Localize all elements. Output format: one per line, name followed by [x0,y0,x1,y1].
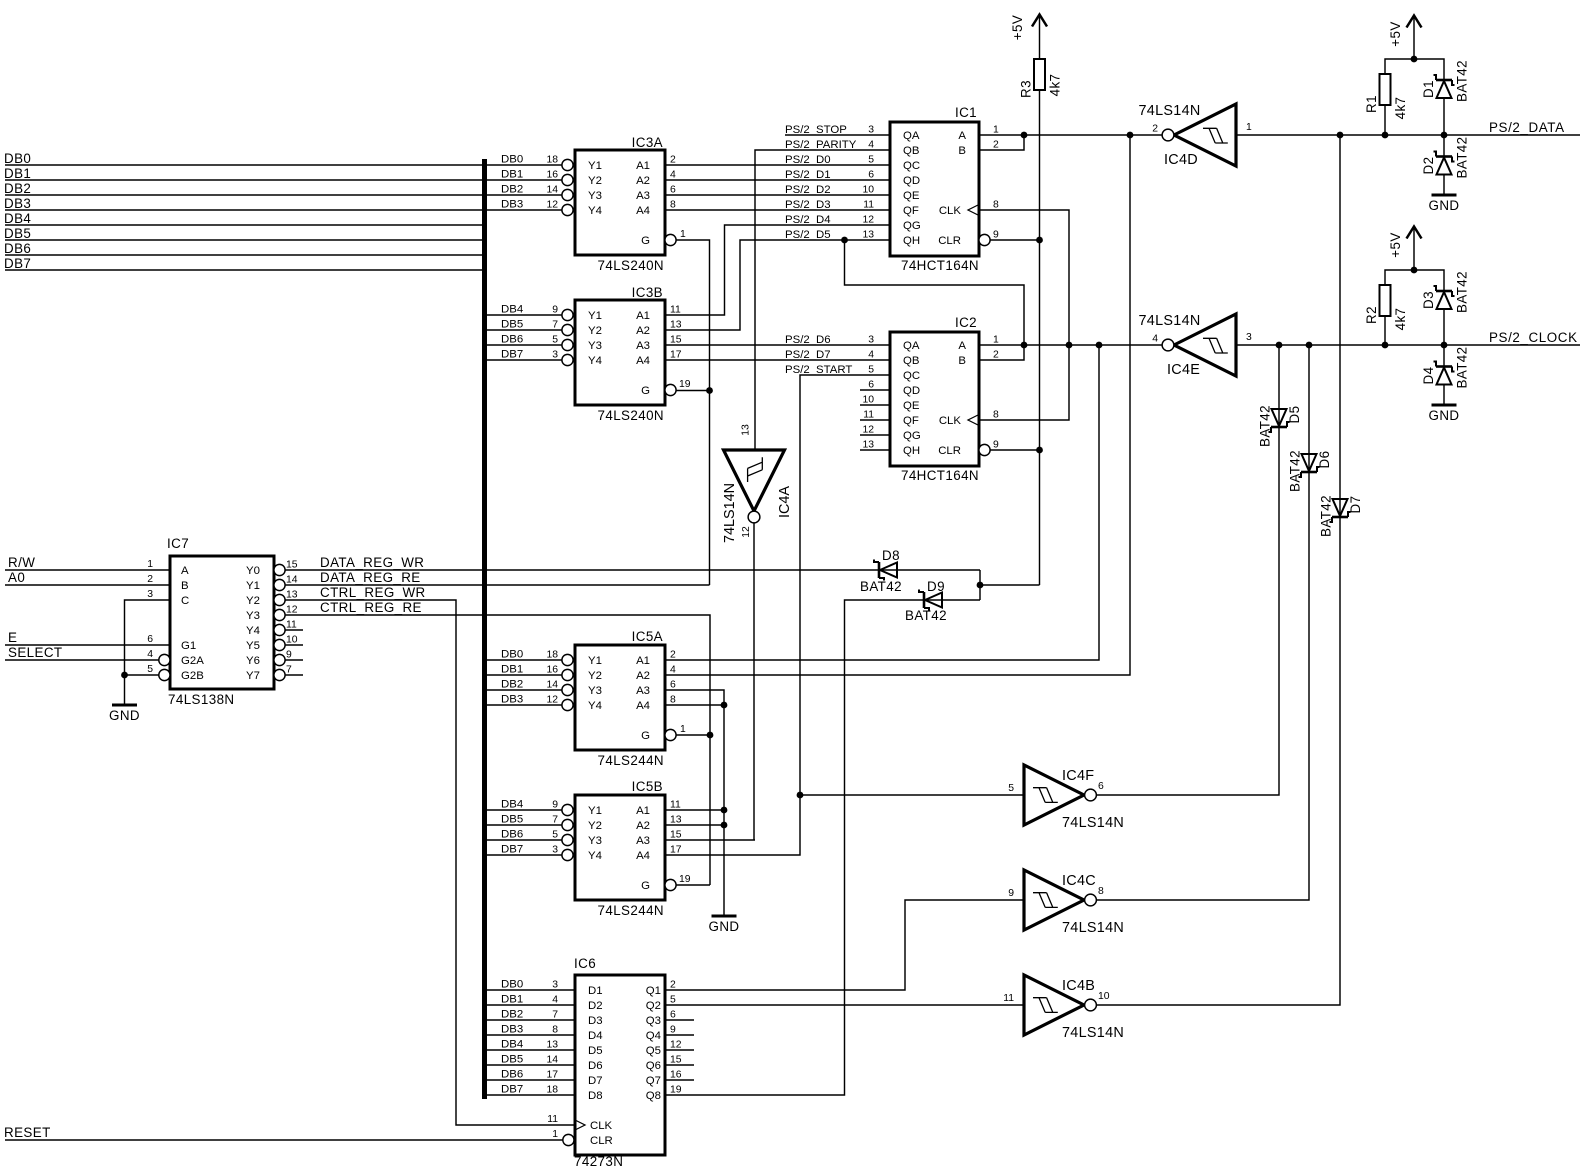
svg-text:Y2: Y2 [588,175,602,187]
junction C / G2B / GND [121,672,128,679]
svg-text:PS/2_D2: PS/2_D2 [785,184,831,196]
diode D5 BAT42 [1271,426,1287,429]
pin stub IC6 Q3 [665,1019,694,1021]
svg-text:A2: A2 [636,325,650,337]
svg-text:A2: A2 [636,670,650,682]
svg-text:15: 15 [670,830,682,841]
IC IC3B 74LS240N buffer [575,300,665,405]
svg-text:Y1: Y1 [588,655,602,667]
svg-text:2: 2 [670,155,676,166]
svg-text:Y1: Y1 [588,310,602,322]
pin stub IC6 Q7 [665,1079,694,1081]
svg-text:D7: D7 [1348,496,1363,514]
svg-text:12: 12 [286,605,298,616]
svg-text:D5: D5 [588,1045,603,1057]
svg-text:9: 9 [993,230,999,241]
wire R2 top to +5V rail and D3 [1385,270,1444,291]
svg-text:BAT42: BAT42 [1455,137,1470,179]
svg-text:DB4: DB4 [501,1039,523,1051]
pin bubble IC5B G pin 19 [665,879,676,890]
svg-text:DB3: DB3 [501,199,523,211]
pin bubble IC7 G2A [159,654,170,665]
svg-text:A4: A4 [636,700,650,712]
svg-text:Y1: Y1 [588,160,602,172]
pin stub IC2 QD pin 6 [860,389,890,391]
pin bubble IC2 CLR pin 9 [979,444,990,455]
svg-text:5: 5 [147,664,153,675]
wire DB5 branch to IC6 pin 14 [487,1064,574,1066]
wire IC3A G to DATA_REG_RE vertical [676,240,710,391]
svg-text:8: 8 [552,1025,558,1036]
svg-text:PS/2_STOP: PS/2_STOP [785,124,847,136]
svg-text:DB2: DB2 [501,184,523,196]
wire DB3 branch to IC5A pin 12 [487,704,562,706]
svg-text:DB5: DB5 [501,814,523,826]
pin stub IC2 QE pin 10 [860,404,890,406]
inverter IC4F 74LS14N [1024,765,1084,825]
svg-text:5: 5 [670,995,676,1006]
svg-text:18: 18 [546,155,558,166]
svg-text:QF: QF [903,205,919,217]
svg-text:D6: D6 [588,1060,603,1072]
svg-text:Y4: Y4 [588,205,602,217]
svg-text:D8: D8 [588,1090,603,1102]
junction D3 D4 / PS/2_CLOCK [1441,342,1448,349]
pin stub IC6 Q6 [665,1064,694,1066]
svg-text:BAT42: BAT42 [1319,495,1334,537]
svg-text:Y3: Y3 [588,340,602,352]
svg-text:PS/2_D3: PS/2_D3 [785,199,831,211]
svg-text:DB4: DB4 [4,211,31,226]
svg-text:9: 9 [552,305,558,316]
wire DB1 branch to IC5A pin 16 [487,674,562,676]
pin bubble IC3A Y2 [562,174,573,185]
wire to ground symbol [124,675,126,705]
svg-text:A: A [181,565,189,577]
pin stub IC6 Q4 [665,1034,694,1036]
svg-text:Y2: Y2 [588,670,602,682]
svg-text:Y1: Y1 [588,805,602,817]
wire clock line to D4 [1443,345,1445,367]
junction clock net / CLK pins [1066,342,1073,349]
svg-text:PS/2_D0: PS/2_D0 [785,154,831,166]
wire DB7 branch to IC6 pin 18 [487,1094,574,1096]
svg-text:R2: R2 [1364,306,1379,324]
svg-text:13: 13 [741,424,752,436]
svg-text:IC2: IC2 [955,315,977,330]
svg-text:74273N: 74273N [574,1154,623,1169]
svg-text:DB7: DB7 [501,844,523,856]
svg-text:DB2: DB2 [501,679,523,691]
wire IC2 A/B to IC4E output [979,344,1162,346]
wire PS/2_START from IC2 pin 5 down to IC4F input and IC5B A4 [665,375,890,855]
svg-text:DB5: DB5 [501,319,523,331]
svg-text:IC4A: IC4A [777,486,793,518]
svg-text:10: 10 [286,635,298,646]
svg-text:CLR: CLR [938,235,961,247]
svg-text:14: 14 [546,680,558,691]
svg-text:74LS240N: 74LS240N [598,258,665,273]
pin stub IC2 QF pin 11 [860,419,890,421]
svg-text:A3: A3 [636,835,650,847]
pin bubble IC7 Y6 [274,654,285,665]
power symbol +5V (R3) [1032,15,1047,27]
svg-text:13: 13 [546,1040,558,1051]
svg-text:10: 10 [1098,991,1110,1002]
svg-text:Y5: Y5 [246,640,260,652]
wire CTRL_REG_RE from IC7 Y3 to IC5 G pins [285,615,710,885]
wire R1/D1 top rail [1384,105,1386,135]
svg-text:BAT42: BAT42 [1455,60,1470,102]
pin bubble IC5B Y3 [562,834,573,845]
junction CTRL_REG_RE / IC5A G [707,732,714,739]
svg-text:Y2: Y2 [588,325,602,337]
svg-text:Y4: Y4 [246,625,260,637]
svg-text:DB0: DB0 [501,979,523,991]
svg-text:A: A [958,130,966,142]
svg-text:CTRL_REG_RE: CTRL_REG_RE [320,600,422,615]
svg-text:QA: QA [903,130,920,142]
svg-text:13: 13 [862,230,874,241]
svg-text:12: 12 [741,526,752,538]
svg-text:BAT42: BAT42 [1258,405,1273,447]
svg-text:4: 4 [552,995,558,1006]
svg-text:PS/2_PARITY: PS/2_PARITY [785,139,857,151]
svg-text:G: G [641,385,650,397]
svg-text:7: 7 [552,320,558,331]
svg-text:DB2: DB2 [4,181,31,196]
pin bubble IC5A Y2 [562,669,573,680]
svg-text:8: 8 [993,200,999,211]
svg-text:11: 11 [1003,993,1014,1004]
svg-text:3: 3 [1246,332,1252,343]
svg-text:+5V: +5V [1388,21,1403,46]
svg-text:IC1: IC1 [955,105,977,120]
svg-text:14: 14 [546,185,558,196]
svg-text:1: 1 [993,125,999,136]
svg-text:DB7: DB7 [4,256,31,271]
wire IC5B G to CTRL_REG_RE vertical [676,884,710,886]
wire D2 to ground [1443,175,1445,196]
svg-text:11: 11 [670,800,681,811]
svg-text:4k7: 4k7 [1393,97,1408,120]
svg-text:74LS14N: 74LS14N [1139,103,1201,119]
bus DB[0..7] [482,159,487,1099]
svg-text:1: 1 [1246,122,1252,133]
svg-text:G2A: G2A [181,655,204,667]
svg-text:3: 3 [147,589,153,600]
wire IC1 A/B to IC4D output [979,134,1162,136]
svg-text:CLR: CLR [590,1135,613,1147]
wire SELECT to IC7 G2A [5,659,159,661]
svg-text:CTRL_REG_WR: CTRL_REG_WR [320,585,426,600]
svg-text:Q4: Q4 [646,1030,661,1042]
wire R2 bottom [1384,316,1386,345]
wire DB7 branch to IC3B pin 3 [487,359,562,361]
svg-text:R3: R3 [1019,80,1034,98]
svg-text:11: 11 [863,410,874,421]
svg-text:1: 1 [147,559,153,570]
svg-text:Y2: Y2 [588,820,602,832]
svg-text:3: 3 [868,335,874,346]
svg-text:DB1: DB1 [501,664,523,676]
wire PS/2_DATA line [1236,134,1580,136]
inverter IC4B 74LS14N [1024,975,1084,1035]
svg-text:R/W: R/W [8,555,35,570]
svg-text:PS/2_CLOCK: PS/2_CLOCK [1489,330,1578,345]
svg-text:C: C [181,595,189,607]
svg-text:4: 4 [868,140,874,151]
svg-text:19: 19 [670,1085,682,1096]
svg-text:G1: G1 [181,640,196,652]
svg-text:IC3A: IC3A [632,135,663,150]
junction IC5A A4 / GND net [721,702,728,709]
svg-text:IC4D: IC4D [1164,152,1198,168]
svg-text:Q7: Q7 [646,1075,661,1087]
svg-text:Y3: Y3 [588,190,602,202]
svg-text:D7: D7 [588,1075,603,1087]
svg-text:5: 5 [552,335,558,346]
pin bubble IC7 G2B [159,669,170,680]
pin bubble IC3B G pin 19 [665,384,676,395]
svg-text:4: 4 [147,649,153,660]
wire DB7 feeder [5,269,482,271]
wire IC6 Q8 to diode D9 [665,600,980,1095]
junction +5V arrow (R2/D3) [1411,267,1418,274]
svg-text:A1: A1 [636,160,650,172]
svg-text:B: B [958,145,966,157]
svg-text:QH: QH [903,445,920,457]
svg-text:4: 4 [868,350,874,361]
svg-text:74LS240N: 74LS240N [598,408,665,423]
svg-text:DB3: DB3 [501,694,523,706]
diode D8 BAT42 [878,562,881,578]
svg-text:13: 13 [862,440,874,451]
svg-text:A4: A4 [636,355,650,367]
junction D1 D2 / PS/2_DATA [1441,132,1448,139]
svg-text:Y0: Y0 [246,565,260,577]
svg-text:13: 13 [670,320,682,331]
wire PS/2_START to IC4F input pin 5 [800,794,1024,796]
svg-text:Y3: Y3 [246,610,260,622]
svg-text:GND: GND [709,919,740,934]
svg-text:1: 1 [552,1129,558,1140]
pin bubble IC3A Y3 [562,189,573,200]
svg-text:74LS14N: 74LS14N [722,483,738,543]
svg-text:Q6: Q6 [646,1060,661,1072]
svg-text:DB2: DB2 [501,1009,523,1021]
svg-text:8: 8 [1098,886,1104,897]
svg-text:D3: D3 [588,1015,603,1027]
svg-text:74LS244N: 74LS244N [598,903,665,918]
svg-text:1: 1 [680,229,686,240]
svg-text:A4: A4 [636,850,650,862]
svg-text:3: 3 [552,350,558,361]
pin bubble IC3A G pin 1 [665,234,676,245]
wire DB4 branch to IC6 pin 13 [487,1049,574,1051]
wire PS/2_D2 from IC3A A3 to IC1 [665,194,890,196]
svg-text:CLK: CLK [939,205,962,217]
svg-text:6: 6 [670,1010,676,1021]
svg-text:IC7: IC7 [167,536,189,551]
svg-text:DB5: DB5 [501,1054,523,1066]
pin bubble IC5A Y3 [562,684,573,695]
svg-text:DB0: DB0 [4,151,31,166]
svg-text:12: 12 [546,695,558,706]
svg-text:8: 8 [993,410,999,421]
junction +5V arrow (R1/D1) [1411,56,1418,63]
wire DB1 branch to IC3A pin 16 [487,179,562,181]
pin bubble IC5A G pin 1 [665,729,676,740]
svg-text:6: 6 [670,185,676,196]
svg-text:IC5B: IC5B [632,779,663,794]
svg-text:74HCT164N: 74HCT164N [901,468,979,483]
svg-text:QD: QD [903,175,920,187]
svg-text:74LS14N: 74LS14N [1062,920,1124,936]
wire DB5 feeder [5,239,482,241]
svg-text:A: A [958,340,966,352]
pin bubble IC5B Y4 [562,849,573,860]
pin bubble IC1 CLR pin 9 [979,234,990,245]
svg-text:11: 11 [670,305,681,316]
IC IC2 74HCT164N shift register [890,332,979,466]
wire IC5A A4 to GND vertical [665,704,724,706]
svg-text:Q2: Q2 [646,1000,661,1012]
IC IC5A 74LS244N buffer [575,645,665,750]
svg-text:17: 17 [670,350,682,361]
wire IC5B A1 to GND vertical [665,809,724,811]
svg-text:DB6: DB6 [501,1069,523,1081]
pin bubble IC5B Y2 [562,819,573,830]
IC IC1 74HCT164N shift register [890,122,979,256]
svg-text:Y3: Y3 [588,835,602,847]
wire PS/2_D1 from IC3A A2 to IC1 [665,179,890,181]
svg-text:12: 12 [862,425,874,436]
wire IC6 Q1 to IC4C input [665,900,1024,990]
wire DB5 branch to IC3B pin 7 [487,329,562,331]
pin bubble IC3A Y1 [562,159,573,170]
svg-text:DB7: DB7 [501,1084,523,1096]
pin bubble IC3B Y4 [562,354,573,365]
svg-text:A3: A3 [636,190,650,202]
diode D2 BAT42 [1436,155,1452,158]
junction IC3B G / DATA_REG_RE [706,387,713,394]
svg-text:D5: D5 [1287,406,1302,424]
wire DB2 branch to IC6 pin 7 [487,1019,574,1021]
svg-text:DB3: DB3 [501,1024,523,1036]
power symbol +5V (R2/D3) [1407,227,1422,239]
svg-text:2: 2 [993,350,999,361]
svg-text:Y2: Y2 [246,595,260,607]
junction R2 / PS/2_CLOCK [1382,342,1389,349]
wire IC4C output to diode D6 [1097,345,1310,900]
svg-text:2: 2 [993,140,999,151]
wire IC5B A3 from IC4A output [665,839,755,841]
svg-text:DB1: DB1 [501,169,523,181]
wire IC1 CLR pin 9 [990,239,1040,241]
wire IC2 B jog [979,345,1024,360]
svg-text:BAT42: BAT42 [1288,450,1303,492]
svg-text:74LS138N: 74LS138N [168,692,235,707]
wire IC7 C to GND jog [125,600,171,675]
svg-text:Y6: Y6 [246,655,260,667]
svg-text:8: 8 [670,695,676,706]
svg-text:RESET: RESET [4,1125,51,1140]
wire DB4 feeder [5,224,482,226]
diode D1 BAT42 [1436,79,1452,82]
clock edge marker IC1 CLK [968,205,979,216]
svg-text:PS/2_D4: PS/2_D4 [785,214,831,226]
svg-text:Y7: Y7 [246,670,260,682]
svg-text:D3: D3 [1421,291,1436,309]
svg-text:Y3: Y3 [588,685,602,697]
svg-text:G: G [641,880,650,892]
svg-text:GND: GND [1429,198,1460,213]
svg-text:74LS14N: 74LS14N [1139,313,1201,329]
clock edge marker IC2 CLK [968,415,979,426]
svg-text:2: 2 [670,650,676,661]
svg-text:17: 17 [546,1070,558,1081]
svg-text:74LS14N: 74LS14N [1062,815,1124,831]
junction PS/2_START / IC4F input [797,792,804,799]
svg-text:17: 17 [670,845,682,856]
svg-text:16: 16 [546,170,558,181]
pin stub IC7 Y5 [285,644,303,646]
svg-text:2: 2 [670,980,676,991]
svg-text:A2: A2 [636,175,650,187]
pin bubble IC5A Y1 [562,654,573,665]
svg-text:D8: D8 [882,548,900,563]
svg-text:PS/2_D6: PS/2_D6 [785,334,831,346]
wire D4 to ground [1443,385,1445,406]
svg-text:D1: D1 [1421,80,1436,98]
svg-text:7: 7 [552,815,558,826]
svg-text:DB0: DB0 [501,154,523,166]
svg-text:74LS14N: 74LS14N [1062,1025,1124,1041]
svg-text:D4: D4 [1421,366,1436,384]
svg-text:PS/2_DATA: PS/2_DATA [1489,120,1565,135]
junction IC5B A2 / GND net [721,822,728,829]
svg-text:PS/2_START: PS/2_START [785,364,852,376]
wire E to IC7 G1 [5,644,170,646]
svg-text:QF: QF [903,415,919,427]
wire IC4F output to diode D5 [1097,345,1280,795]
wire DB6 branch to IC6 pin 17 [487,1079,574,1081]
svg-text:10: 10 [862,395,874,406]
svg-text:DB6: DB6 [501,829,523,841]
IC IC5B 74LS244N buffer [575,795,665,900]
svg-text:IC3B: IC3B [632,285,663,300]
junction clock sense (IC5A A1) [1096,342,1103,349]
svg-text:CLR: CLR [938,445,961,457]
svg-text:7: 7 [552,1010,558,1021]
wire DB5 branch to IC5B pin 7 [487,824,562,826]
svg-text:6: 6 [868,380,874,391]
resistor R1 4k7 [1380,74,1391,105]
svg-text:IC4F: IC4F [1062,768,1094,784]
pin bubble IC7 Y4 [274,624,285,635]
svg-text:+5V: +5V [1010,15,1025,40]
svg-text:QA: QA [903,340,920,352]
svg-text:IC4B: IC4B [1062,978,1095,994]
wire IC2 CLR pin 9 [990,449,1040,451]
inverter IC4D 74LS14N [1174,104,1236,166]
resistor R2 4k7 [1380,285,1391,316]
svg-text:Q1: Q1 [646,985,661,997]
wire DB3 branch to IC3A pin 12 [487,209,562,211]
svg-text:DB4: DB4 [501,304,523,316]
ground symbol GND (IC5) [712,915,737,918]
